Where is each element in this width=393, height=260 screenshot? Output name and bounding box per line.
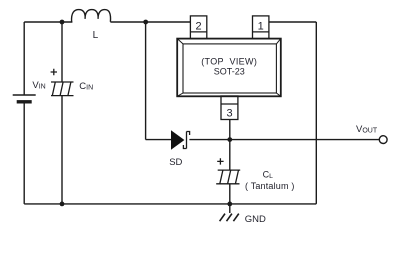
battery V1 (VIN source): [13, 95, 36, 102]
svg-text:GND: GND: [245, 214, 266, 225]
wire: CL branch vertical: [229, 140, 231, 171]
wire: diode anode wire: [146, 139, 171, 141]
svg-text:2: 2: [196, 20, 202, 32]
capacitor CIN: [51, 82, 74, 96]
plus sign (CL polarity): [217, 158, 223, 164]
capacitor CL: [216, 170, 240, 184]
IC U1 SOT-23 package body: [177, 39, 281, 97]
wire: pin 1 to right rail: [269, 21, 316, 23]
node: VOUT / pin3 junction: [227, 137, 232, 142]
wire: pin 3 down to VOUT node: [229, 120, 231, 140]
terminal VOUT: [379, 136, 387, 144]
svg-text:3: 3: [227, 108, 233, 120]
wire: switch node vertical down to diode: [145, 22, 147, 140]
wire: top rail left (battery+ to inductor): [24, 21, 72, 23]
wire: top rail inductor to pin 2: [110, 21, 190, 23]
svg-text:SOT-23: SOT-23: [214, 66, 245, 76]
svg-text:SD: SD: [169, 157, 182, 168]
node: switch-node junction: [143, 20, 148, 25]
node: CIN ground junction: [60, 202, 65, 207]
ground symbol: [220, 214, 239, 222]
inductor L: [72, 10, 111, 22]
diode SD (Schottky): [171, 130, 190, 150]
node: CL ground junction: [227, 202, 232, 207]
wire: diode cathode to VOUT terminal: [189, 139, 379, 141]
wire: right vertical rail (pin1 to ground rail): [315, 22, 317, 204]
wire: ground stub: [229, 204, 231, 213]
wire: left vertical (battery branch): [23, 22, 25, 95]
svg-text:(TOP VIEW): (TOP VIEW): [201, 57, 257, 67]
pin 3: [221, 96, 238, 120]
svg-text:L: L: [93, 30, 99, 41]
pin 1: [253, 16, 269, 39]
wire: CIN branch vertical: [61, 22, 63, 82]
svg-text:1: 1: [258, 20, 264, 32]
wire: bottom ground rail: [24, 203, 316, 205]
node: CIN / input junction: [60, 20, 65, 25]
svg-text:( Tantalum ): ( Tantalum ): [245, 181, 295, 191]
plus sign (CIN polarity): [51, 69, 57, 75]
pin 2: [190, 16, 206, 39]
